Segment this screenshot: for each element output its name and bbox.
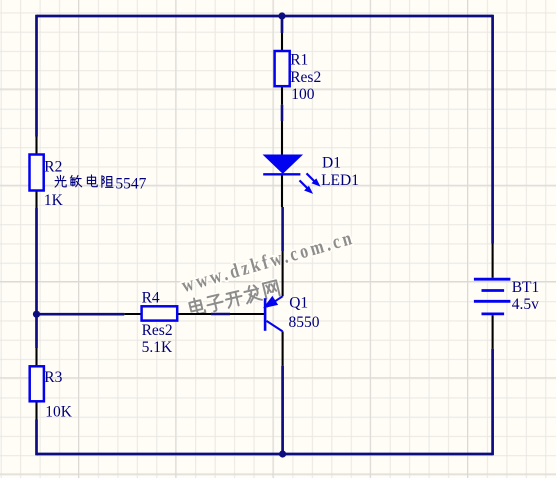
R1 pin 2	[281, 86, 283, 105]
LED D1 arrow 2	[300, 180, 314, 194]
Q1 emitter pin	[282, 251, 284, 296]
svg-text:R4: R4	[142, 289, 160, 306]
Q1 collector pin	[282, 331, 284, 365]
wire right upper	[491, 15, 494, 244]
LED D1 arrow 1	[307, 173, 321, 186]
watermark line 1 www.dzkfw.com.cn	[179, 226, 357, 296]
svg-text:4.5v: 4.5v	[512, 296, 539, 313]
svg-text:BT1: BT1	[512, 279, 540, 296]
transistor Q1 emitter arrow	[266, 298, 277, 307]
battery BT1 plate short 1	[482, 289, 505, 292]
label D1 comment LED1	[321, 172, 359, 189]
junction dot bottom	[279, 450, 286, 457]
R1 pin 1	[281, 33, 283, 51]
transistor Q1 base bar	[264, 298, 267, 331]
D1 pin 2	[281, 174, 283, 207]
battery BT1 plate long 2	[474, 300, 511, 303]
wire top	[37, 15, 493, 18]
resistor R3	[30, 366, 44, 401]
label R1 value 100	[291, 86, 315, 103]
label R2 comment guangmindianzu 5547	[55, 175, 113, 187]
label R3 designator	[44, 369, 62, 386]
R4 pin 2	[177, 313, 211, 315]
label Q1 value 8550	[289, 314, 320, 331]
junction dot left	[33, 311, 40, 318]
wire R4 to Q1 base	[211, 313, 230, 316]
wire left upper	[35, 15, 38, 137]
R2 pin 1	[35, 137, 37, 155]
svg-text:1K: 1K	[44, 192, 64, 209]
svg-text:5547: 5547	[115, 175, 146, 192]
LED D1 cathode bar	[263, 173, 300, 175]
BT1 pin 1	[492, 244, 494, 278]
R2 pin 2	[35, 191, 37, 209]
wire R1 top stub	[281, 16, 284, 33]
svg-text:R1: R1	[290, 52, 308, 69]
wire base row	[37, 313, 125, 316]
svg-text:10K: 10K	[45, 403, 72, 420]
svg-text:D1: D1	[322, 155, 341, 172]
svg-text:Q1: Q1	[289, 295, 308, 312]
svg-text:Res2: Res2	[290, 69, 321, 86]
battery BT1 plate long 1	[474, 278, 511, 281]
wire R1 to D1	[281, 105, 284, 121]
svg-text:Res2: Res2	[142, 322, 173, 339]
label R3 value 10K	[45, 403, 72, 420]
wire left middle	[35, 208, 38, 348]
R3 pin 2	[35, 401, 37, 419]
svg-text:LED1: LED1	[321, 172, 359, 189]
LED D1 triangle	[264, 155, 301, 173]
wire left lower	[35, 420, 38, 456]
label D1 designator	[322, 155, 341, 172]
label BT1 designator	[512, 279, 540, 296]
resistor R1	[275, 51, 290, 86]
svg-text:8550: 8550	[289, 314, 320, 331]
svg-text:5.1K: 5.1K	[142, 339, 173, 356]
label R1 comment Res2	[290, 69, 321, 86]
D1 pin 1	[281, 121, 283, 155]
resistor R4	[142, 306, 178, 320]
label BT1 value 4.5v	[512, 296, 539, 313]
R4 pin 1	[124, 313, 141, 315]
wire right lower	[491, 349, 494, 456]
Q1 base pin	[230, 313, 265, 315]
label R4 comment Res2	[142, 322, 173, 339]
label Q1 designator	[289, 295, 308, 312]
resistor R2 photoresistor	[30, 155, 44, 191]
label R2 designator	[44, 158, 62, 175]
wire Q1 to bottom	[281, 366, 284, 454]
junction dot top	[278, 12, 285, 19]
label R4 designator	[142, 289, 160, 306]
label R2 value 1K	[44, 192, 64, 209]
wire bottom	[37, 453, 493, 456]
battery BT1 plate short 2	[482, 312, 505, 315]
BT1 pin 2	[492, 315, 494, 349]
svg-text:R3: R3	[44, 369, 62, 386]
R3 pin 1	[35, 348, 37, 366]
svg-text:R2: R2	[44, 158, 62, 175]
label R4 value 5.1K	[142, 339, 173, 356]
transistor Q1 collector line	[267, 321, 283, 332]
wire D1 to Q1	[281, 207, 284, 251]
transistor Q1 emitter line	[267, 296, 283, 307]
label R1 designator	[290, 52, 308, 69]
svg-text:100: 100	[291, 86, 315, 103]
watermark line 2 dianzikaifawang	[189, 279, 280, 317]
